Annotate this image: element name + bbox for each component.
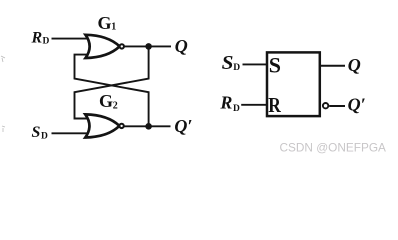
wire block to Q [320, 65, 345, 67]
wire feedback Q to G2 input [75, 46, 149, 118]
svg-text:Q′: Q′ [174, 116, 192, 136]
bubble on Q' output [323, 103, 328, 108]
wire feedback Q' to G1 input [75, 55, 149, 127]
wire S_D to block [243, 63, 267, 65]
svg-text:Q′: Q′ [348, 95, 366, 115]
wire R_D to block [241, 104, 266, 106]
svg-text:D: D [233, 104, 240, 114]
wire R_D input to G1 [52, 38, 90, 40]
svg-text:D: D [233, 63, 240, 73]
scan artifact left edge top [1, 56, 5, 62]
svg-text:D: D [43, 37, 50, 47]
nor gate G2 [85, 114, 124, 137]
svg-text:Q: Q [175, 36, 188, 56]
svg-text:R: R [219, 93, 232, 113]
nor gate G1 [86, 35, 125, 58]
latch block U1 [267, 52, 320, 116]
svg-text:CSDN @ONEFPGA: CSDN @ONEFPGA [280, 140, 386, 154]
svg-text:R: R [268, 93, 281, 117]
svg-text:Q: Q [348, 55, 361, 75]
wire S_D input to G2 [52, 132, 90, 134]
scan artifact left edge bottom [2, 126, 5, 132]
wire block to Q' [329, 105, 345, 107]
svg-text:G: G [99, 91, 113, 111]
svg-text:2: 2 [113, 101, 118, 112]
svg-text:S: S [269, 52, 281, 77]
node Q junction [145, 43, 152, 50]
svg-text:S: S [32, 124, 41, 141]
svg-text:G: G [98, 13, 112, 33]
node Q' junction [145, 123, 152, 130]
svg-text:S: S [222, 52, 234, 74]
wire G1 output to Q [124, 45, 171, 47]
svg-text:D: D [41, 132, 48, 142]
svg-text:1: 1 [111, 22, 116, 33]
svg-text:R: R [31, 30, 43, 47]
wire G2 output to Q' [124, 125, 171, 127]
